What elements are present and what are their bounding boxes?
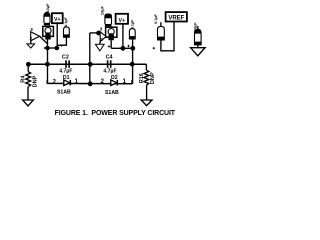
plus mark VREF (153, 47, 156, 49)
svg-text:R16: R16 (139, 73, 145, 83)
resistor R4 (DNP) (20, 64, 38, 87)
wire R4 to arrow (27, 87, 29, 100)
capacitor body (VREF 10uF) (195, 26, 202, 45)
capacitor body C1 (10uF electrolytic can) (44, 13, 50, 28)
ground arrow bottom right (141, 100, 152, 106)
wire 0.1uF to V+ wire (57, 37, 66, 45)
wire jack string down to rail (right) (110, 40, 112, 48)
wire to ground (left subcircuit) (30, 41, 32, 44)
connector arrow (right) (100, 32, 106, 42)
plus mark right B (127, 45, 130, 47)
V+ net flag (left) (52, 13, 63, 23)
ground triangle (left subcircuit) (27, 44, 35, 48)
capacitor body (left 0.1uF) (64, 27, 70, 37)
ground arrow (VREF) (191, 48, 205, 56)
wire V+ flag down (right) (122, 24, 124, 49)
wire rail right subcircuit (111, 47, 133, 49)
ground arrow bottom left (23, 100, 34, 106)
wire V+ flag down (56, 23, 58, 48)
plus mark right A (108, 45, 111, 47)
wire to ground (right subcircuit) (99, 41, 101, 44)
svg-text:VREF: VREF (168, 15, 184, 22)
wire left column (V+ block to diode row) (47, 40, 49, 84)
wire top bus (28, 63, 146, 65)
jack body right (box with circle) (106, 27, 117, 40)
resistor R16 (DNP) (139, 64, 156, 85)
node bus left end (26, 62, 31, 67)
connector arrow (left) (31, 32, 40, 41)
diode D1 (S1AB) (53, 75, 79, 95)
svg-text:V+: V+ (54, 17, 61, 23)
node bus under left V+ block (45, 62, 50, 67)
svg-text:10µF: 10µF (99, 5, 104, 15)
wire right column (132, 48, 134, 84)
VREF net flag (166, 12, 187, 22)
jack body left (box with circle) (43, 26, 54, 39)
svg-text:4.7µF: 4.7µF (59, 68, 72, 74)
node bus right (130, 62, 135, 67)
svg-text:S1AB: S1AB (57, 90, 71, 96)
wire VREF 10uF to arrow (197, 45, 199, 48)
svg-text:V+: V+ (119, 18, 126, 24)
svg-text:DNP: DNP (32, 75, 38, 87)
node rail left (45, 46, 50, 51)
wire middle column (89, 33, 91, 84)
node pin3 feed (96, 31, 101, 36)
node rail right (55, 46, 60, 51)
svg-text:D2: D2 (111, 75, 118, 81)
capacitor body (right 0.1uF) (129, 29, 135, 39)
wire rail left subcircuit (44, 47, 59, 49)
plus mark left (60, 44, 63, 46)
wire R16 to arrow (146, 85, 148, 100)
node rail V+ (right) (121, 46, 126, 51)
capacitor C2 (59, 54, 72, 74)
svg-text:0.1µF: 0.1µF (154, 13, 158, 23)
ground triangle (right subcircuit) (95, 44, 104, 51)
svg-text:10µF: 10µF (45, 3, 50, 13)
svg-text:S1AB: S1AB (105, 90, 119, 96)
capacitor C4 (103, 54, 116, 74)
node rail cap (right) (130, 46, 135, 51)
svg-text:0.1µF: 0.1µF (131, 19, 135, 29)
node bus middle (88, 62, 93, 67)
wire 0.1uF down to rail (right) (132, 39, 134, 48)
capacitor body (VREF 0.1uF) (158, 22, 165, 40)
wire diode row (47, 82, 132, 84)
V+ net flag (right) (116, 14, 128, 24)
svg-text:C4: C4 (106, 54, 114, 60)
wire pin3 feed (right) (90, 32, 100, 34)
svg-text:R4: R4 (20, 75, 26, 83)
svg-text:FIGURE 1. POWER SUPPLY CIRCUI: FIGURE 1. POWER SUPPLY CIRCUIT (55, 110, 176, 117)
diode D2 (S1AB) (101, 75, 127, 96)
svg-text:0.1µF: 0.1µF (64, 16, 68, 26)
wire connector vertex to column (40, 36, 48, 43)
wire VREF down and left (161, 22, 174, 51)
svg-text:C2: C2 (62, 54, 69, 60)
svg-text:D1: D1 (63, 75, 70, 81)
svg-text:4.7µF: 4.7µF (103, 68, 116, 74)
node diode row middle (88, 81, 93, 86)
svg-text:DNP: DNP (150, 72, 156, 84)
capacitor body C3 (10uF electrolytic can) (105, 14, 112, 28)
